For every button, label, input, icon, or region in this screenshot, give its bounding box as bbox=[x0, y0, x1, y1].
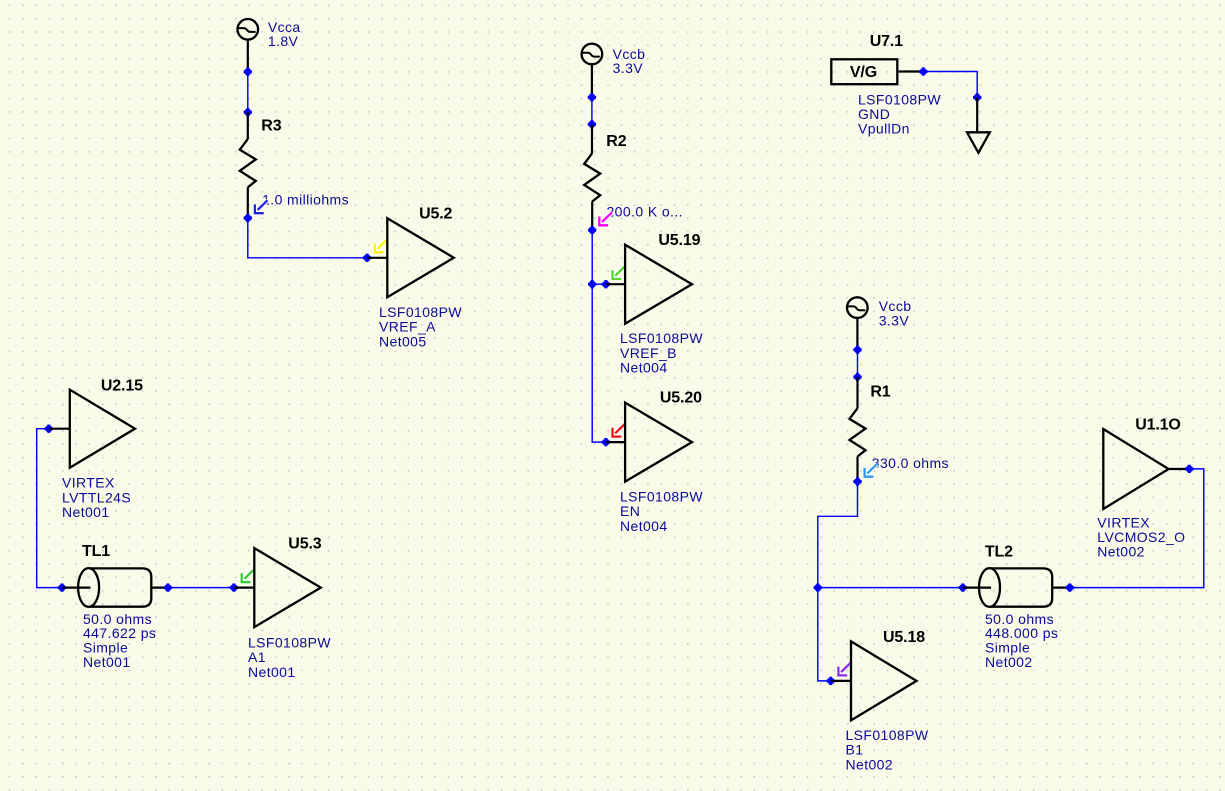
pin arrow green bbox=[613, 266, 626, 279]
svg-text:330.0 ohms: 330.0 ohms bbox=[872, 455, 949, 471]
svg-text:Net002: Net002 bbox=[1097, 544, 1145, 560]
svg-text:VIRTEX: VIRTEX bbox=[1097, 514, 1150, 530]
pin arrow purple bbox=[838, 663, 851, 676]
svg-text:LVCMOS2_O: LVCMOS2_O bbox=[1097, 529, 1185, 545]
svg-text:VREF_B: VREF_B bbox=[620, 345, 677, 361]
wire stub bbox=[1052, 586, 1070, 588]
svg-text:U5.18: U5.18 bbox=[883, 629, 925, 646]
svg-text:B1: B1 bbox=[846, 742, 864, 758]
net labels U5.2 bbox=[379, 304, 462, 349]
svg-text:Net004: Net004 bbox=[620, 360, 668, 376]
value label 330.0 ohms bbox=[865, 455, 949, 477]
net labels U1.1O bbox=[1097, 514, 1185, 559]
wire bbox=[818, 587, 963, 589]
svg-text:VIRTEX: VIRTEX bbox=[62, 475, 115, 491]
svg-text:LVTTL24S: LVTTL24S bbox=[62, 489, 131, 505]
svg-text:R2: R2 bbox=[606, 133, 626, 150]
buffer U1.1O bbox=[1103, 429, 1168, 509]
wire bbox=[37, 429, 62, 588]
pin dot bbox=[230, 583, 238, 591]
svg-text:LSF0108PW: LSF0108PW bbox=[858, 91, 941, 107]
pin dot bbox=[602, 438, 610, 446]
pin dot bbox=[827, 677, 835, 685]
net labels TL2 bbox=[985, 611, 1058, 670]
net labels U5.18 bbox=[846, 727, 929, 772]
transmission line TL1 bbox=[78, 568, 151, 607]
buffer U5.18 bbox=[851, 641, 917, 720]
wire stub bbox=[606, 283, 625, 285]
wire bbox=[923, 72, 977, 98]
resistor R2 bbox=[584, 124, 600, 230]
wire bbox=[248, 218, 367, 258]
svg-text:R1: R1 bbox=[870, 384, 890, 401]
value label 1.0 milliohms bbox=[255, 192, 349, 214]
label Vccb 3.3V bbox=[613, 46, 646, 76]
svg-text:3.3V: 3.3V bbox=[613, 60, 644, 76]
wire bbox=[591, 230, 593, 284]
resistor R1 bbox=[850, 377, 866, 482]
label Vccb 3.3V bbox=[879, 298, 912, 328]
pin dot bbox=[1185, 465, 1193, 473]
svg-text:Net001: Net001 bbox=[62, 504, 110, 520]
junction dot bbox=[244, 214, 252, 222]
svg-text:Net002: Net002 bbox=[985, 654, 1033, 670]
wire stub bbox=[831, 680, 851, 682]
svg-text:TL1: TL1 bbox=[82, 543, 110, 560]
wire bbox=[591, 97, 593, 124]
junction dot bbox=[973, 93, 981, 101]
svg-text:LSF0108PW: LSF0108PW bbox=[846, 727, 929, 743]
svg-text:U1.1O: U1.1O bbox=[1135, 416, 1181, 433]
svg-text:Net001: Net001 bbox=[248, 664, 296, 680]
wire bbox=[818, 588, 831, 681]
junction dot bbox=[853, 373, 861, 381]
resistor R3 bbox=[240, 112, 256, 218]
svg-text:U5.19: U5.19 bbox=[658, 232, 700, 249]
label Vcca 1.8V bbox=[268, 19, 301, 49]
wire bbox=[247, 72, 249, 112]
svg-text:3.3V: 3.3V bbox=[879, 312, 910, 328]
buffer U2.15 bbox=[70, 390, 135, 468]
net labels TL1 bbox=[83, 611, 156, 670]
pin dot bbox=[1066, 583, 1074, 591]
wire stub bbox=[151, 586, 168, 588]
ground bbox=[967, 132, 990, 153]
wire bbox=[857, 350, 859, 377]
IC pin box U7.1 V/G bbox=[831, 59, 897, 84]
wire stub bbox=[963, 586, 991, 588]
buffer U5.3 bbox=[254, 548, 320, 627]
svg-text:200.0 K o...: 200.0 K o... bbox=[607, 204, 683, 220]
voltage source Vccb (right) bbox=[847, 297, 868, 349]
pin dot bbox=[164, 583, 172, 591]
buffer U5.2 bbox=[387, 218, 454, 297]
pin dot bbox=[45, 425, 53, 433]
svg-text:U5.20: U5.20 bbox=[660, 389, 702, 406]
wire stub bbox=[62, 586, 91, 588]
buffer U5.20 bbox=[625, 403, 692, 482]
wire bbox=[592, 283, 606, 285]
junction dot bbox=[244, 108, 252, 116]
wire bbox=[592, 284, 606, 442]
junction dot bbox=[588, 280, 596, 288]
svg-text:VpullDn: VpullDn bbox=[858, 121, 910, 137]
svg-text:A1: A1 bbox=[248, 649, 266, 665]
junction dot bbox=[814, 583, 822, 591]
pin dot bbox=[602, 280, 610, 288]
svg-text:TL2: TL2 bbox=[985, 543, 1013, 560]
wire stub bbox=[899, 70, 924, 72]
buffer U5.19 bbox=[625, 245, 692, 324]
net labels U5.19 bbox=[620, 330, 703, 375]
svg-text:U5.2: U5.2 bbox=[419, 206, 452, 223]
pin arrow yellow bbox=[375, 239, 388, 252]
svg-text:U5.3: U5.3 bbox=[288, 536, 321, 553]
svg-text:LSF0108PW: LSF0108PW bbox=[620, 489, 703, 505]
pin arrow green bbox=[242, 569, 255, 582]
wire bbox=[168, 587, 234, 589]
net labels U7.1 bbox=[858, 91, 941, 136]
net labels U2.15 bbox=[62, 475, 131, 520]
junction dot bbox=[244, 68, 252, 76]
junction dot bbox=[853, 477, 861, 485]
voltage source Vccb (middle) bbox=[582, 44, 603, 98]
pin dot bbox=[919, 67, 927, 75]
junction dot bbox=[588, 226, 596, 234]
net labels U5.20 bbox=[620, 489, 703, 534]
svg-text:U2.15: U2.15 bbox=[101, 378, 143, 395]
svg-text:R3: R3 bbox=[261, 118, 281, 135]
svg-text:LSF0108PW: LSF0108PW bbox=[248, 635, 331, 651]
svg-text:Net001: Net001 bbox=[83, 654, 131, 670]
junction dot bbox=[588, 120, 596, 128]
net labels U5.3 bbox=[248, 635, 331, 680]
svg-text:EN: EN bbox=[620, 503, 640, 519]
svg-text:LSF0108PW: LSF0108PW bbox=[379, 304, 462, 320]
voltage source Vcca bbox=[238, 19, 259, 72]
svg-text:Net002: Net002 bbox=[846, 756, 894, 772]
pin dot bbox=[363, 254, 371, 262]
wire stub bbox=[976, 97, 978, 132]
wire stub bbox=[234, 586, 254, 588]
svg-text:LSF0108PW: LSF0108PW bbox=[620, 330, 703, 346]
svg-text:Net004: Net004 bbox=[620, 518, 668, 534]
svg-text:1.8V: 1.8V bbox=[268, 33, 299, 49]
junction dot bbox=[853, 346, 861, 354]
svg-text:Net005: Net005 bbox=[379, 333, 427, 349]
svg-text:GND: GND bbox=[858, 106, 890, 122]
svg-text:1.0 milliohms: 1.0 milliohms bbox=[262, 192, 349, 208]
pin dot bbox=[58, 583, 66, 591]
wire stub bbox=[1169, 468, 1190, 470]
transmission line TL2 bbox=[979, 568, 1052, 607]
svg-text:V/G: V/G bbox=[850, 64, 877, 81]
value label 200.0 K o... bbox=[599, 204, 683, 226]
wire bbox=[818, 482, 858, 588]
svg-text:U7.1: U7.1 bbox=[870, 33, 903, 50]
svg-text:VREF_A: VREF_A bbox=[379, 319, 436, 335]
wire stub bbox=[49, 428, 70, 430]
wire stub bbox=[606, 441, 625, 443]
wire bbox=[1070, 469, 1204, 588]
pin arrow red bbox=[613, 424, 626, 437]
wire stub bbox=[367, 257, 387, 259]
junction dot bbox=[588, 93, 596, 101]
pin dot bbox=[959, 583, 967, 591]
